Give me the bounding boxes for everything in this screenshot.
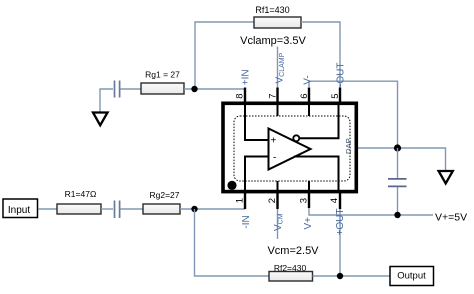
pin 4 stub — [339, 191, 341, 209]
svg-text:V-: V- — [303, 75, 314, 84]
pin 5 stub — [339, 88, 341, 106]
svg-text:6: 6 — [299, 94, 310, 99]
wire internal bubble to pin 5 — [299, 104, 338, 138]
svg-text:Rf2=430: Rf2=430 — [274, 263, 307, 273]
wire +IN node up to Rf1 — [195, 22, 254, 89]
wire Rf1 to pin 5 (-OUT) — [301, 22, 340, 88]
svg-text:Rg1 = 27: Rg1 = 27 — [145, 69, 180, 79]
wire pin 3 V+ to rail — [309, 207, 433, 215]
node junction +OUT/Rf2 — [337, 273, 343, 279]
wire ground branch of C1 — [100, 89, 113, 113]
wire internal pin 6 — [308, 104, 310, 116]
pin number 1 — [234, 198, 245, 203]
pin 6 stub — [308, 88, 310, 106]
svg-text:8: 8 — [235, 94, 246, 99]
capacitor C1 — [115, 81, 120, 98]
inverting output bubble — [293, 135, 299, 141]
wire Input to R1 — [38, 208, 57, 210]
wire internal +IN to op-amp — [245, 104, 269, 140]
svg-text:-: - — [273, 152, 276, 163]
svg-text:V+=5V: V+=5V — [435, 211, 467, 223]
svg-text:Vclamp=3.5V: Vclamp=3.5V — [240, 35, 306, 47]
svg-text:+: + — [271, 136, 277, 147]
svg-text:5: 5 — [330, 94, 341, 99]
wire R1 to C2 — [101, 208, 113, 210]
net label V+=5V — [435, 211, 467, 223]
svg-text:VCLAMP: VCLAMP — [274, 52, 286, 83]
pin label VCLAMP — [274, 52, 286, 83]
ground (left) — [93, 113, 108, 126]
pin label -OUT — [335, 63, 346, 87]
capacitor C2 — [115, 201, 120, 219]
wire DAP node down to capacitor C3 — [397, 148, 399, 179]
pin number 6 — [299, 94, 310, 99]
svg-text:Output: Output — [397, 270, 426, 281]
pin number 3 — [298, 198, 309, 203]
node junction -IN — [191, 206, 197, 212]
resistor Rg1 — [141, 83, 184, 94]
resistor R1 — [57, 204, 101, 214]
value label Rg1 = 27 — [145, 69, 180, 79]
wire C3 to V+ rail — [397, 187, 399, 215]
pin number 7 — [267, 94, 278, 99]
svg-text:VCM: VCM — [273, 213, 285, 231]
wire pin 4 (+OUT) down to Rf2 node — [339, 209, 341, 276]
node junction +IN — [191, 86, 197, 92]
wire Rg1 to pin 8 (+IN) — [184, 88, 245, 90]
node junction V+ rail — [394, 212, 400, 218]
net label Vclamp=3.5V — [240, 35, 306, 47]
net label Vcm=2.5V — [267, 245, 319, 257]
svg-text:DAP: DAP — [344, 138, 353, 154]
pin 2 stub — [276, 191, 278, 209]
IC U1 package body — [223, 103, 356, 191]
pin DAP label — [344, 138, 353, 154]
wire Rg2 to pin 1 (-IN) — [180, 208, 245, 210]
svg-text:2: 2 — [267, 198, 278, 203]
pin 1 marker dot — [227, 181, 236, 190]
svg-text:Vcm=2.5V: Vcm=2.5V — [267, 245, 319, 257]
pin label +OUT — [335, 209, 346, 236]
svg-text:-IN: -IN — [241, 215, 252, 228]
pin 7 stub — [276, 88, 278, 106]
wire internal -IN to op-amp — [245, 157, 269, 193]
Input terminal box — [3, 199, 38, 218]
pin number 4 — [329, 198, 340, 203]
pin number 5 — [330, 94, 341, 99]
IC U1 die outline (dotted) — [234, 116, 350, 181]
value label Rf1=430 — [255, 5, 289, 15]
wire internal pin 2 — [277, 181, 279, 192]
svg-text:3: 3 — [298, 198, 309, 203]
svg-text:+IN: +IN — [241, 69, 252, 85]
svg-text:4: 4 — [329, 198, 340, 203]
pin label V- — [303, 75, 314, 84]
wire internal op-amp to pin 4 — [294, 157, 339, 193]
svg-text:Rg2=27: Rg2=27 — [149, 190, 179, 200]
svg-text:Rf1=430: Rf1=430 — [255, 5, 289, 15]
svg-text:R1=47Ω: R1=47Ω — [65, 189, 97, 199]
pin label +IN — [241, 69, 252, 85]
pin 3 stub — [308, 191, 310, 208]
svg-text:-OUT: -OUT — [335, 63, 346, 87]
pin number 8 — [235, 94, 246, 99]
pin label V+ — [303, 217, 314, 230]
ground (right) — [439, 171, 453, 183]
pin 1 stub — [244, 191, 246, 209]
wire C2 to Rg2 — [120, 208, 143, 210]
wire pin 7 VCLAMP stub — [277, 47, 279, 89]
op-amp U1 — [269, 129, 311, 170]
pin 8 stub — [244, 88, 246, 106]
pin label VCM — [273, 213, 285, 231]
pin label -IN — [241, 215, 252, 228]
wire Rf2 to Output — [313, 275, 391, 277]
wire DAP to right ground — [358, 148, 446, 171]
Output terminal box — [390, 267, 434, 286]
resistor Rg2 — [143, 204, 180, 214]
resistor Rf2 — [269, 272, 313, 282]
value label Rg2=27 — [149, 190, 179, 200]
svg-text:+OUT: +OUT — [335, 209, 346, 236]
value label R1=47ohm — [65, 189, 97, 199]
wire C1 to Rg1 — [120, 88, 141, 90]
capacitor C3 — [388, 179, 407, 187]
wire pin 2 VCM stub — [277, 209, 279, 239]
svg-text:1: 1 — [234, 198, 245, 203]
svg-text:Input: Input — [8, 205, 30, 216]
wire pin 6 V- to DAP node — [309, 81, 398, 148]
resistor Rf1 — [254, 17, 301, 28]
value label Rf2=430 — [274, 263, 307, 273]
svg-text:V+: V+ — [303, 217, 314, 230]
node junction DAP/V- — [394, 144, 401, 151]
wire internal pin 7 — [277, 104, 279, 116]
svg-text:7: 7 — [267, 94, 278, 99]
pin number 2 — [267, 198, 278, 203]
wire internal pin 3 — [308, 181, 310, 192]
wire -IN node down to Rf2 — [195, 209, 270, 276]
